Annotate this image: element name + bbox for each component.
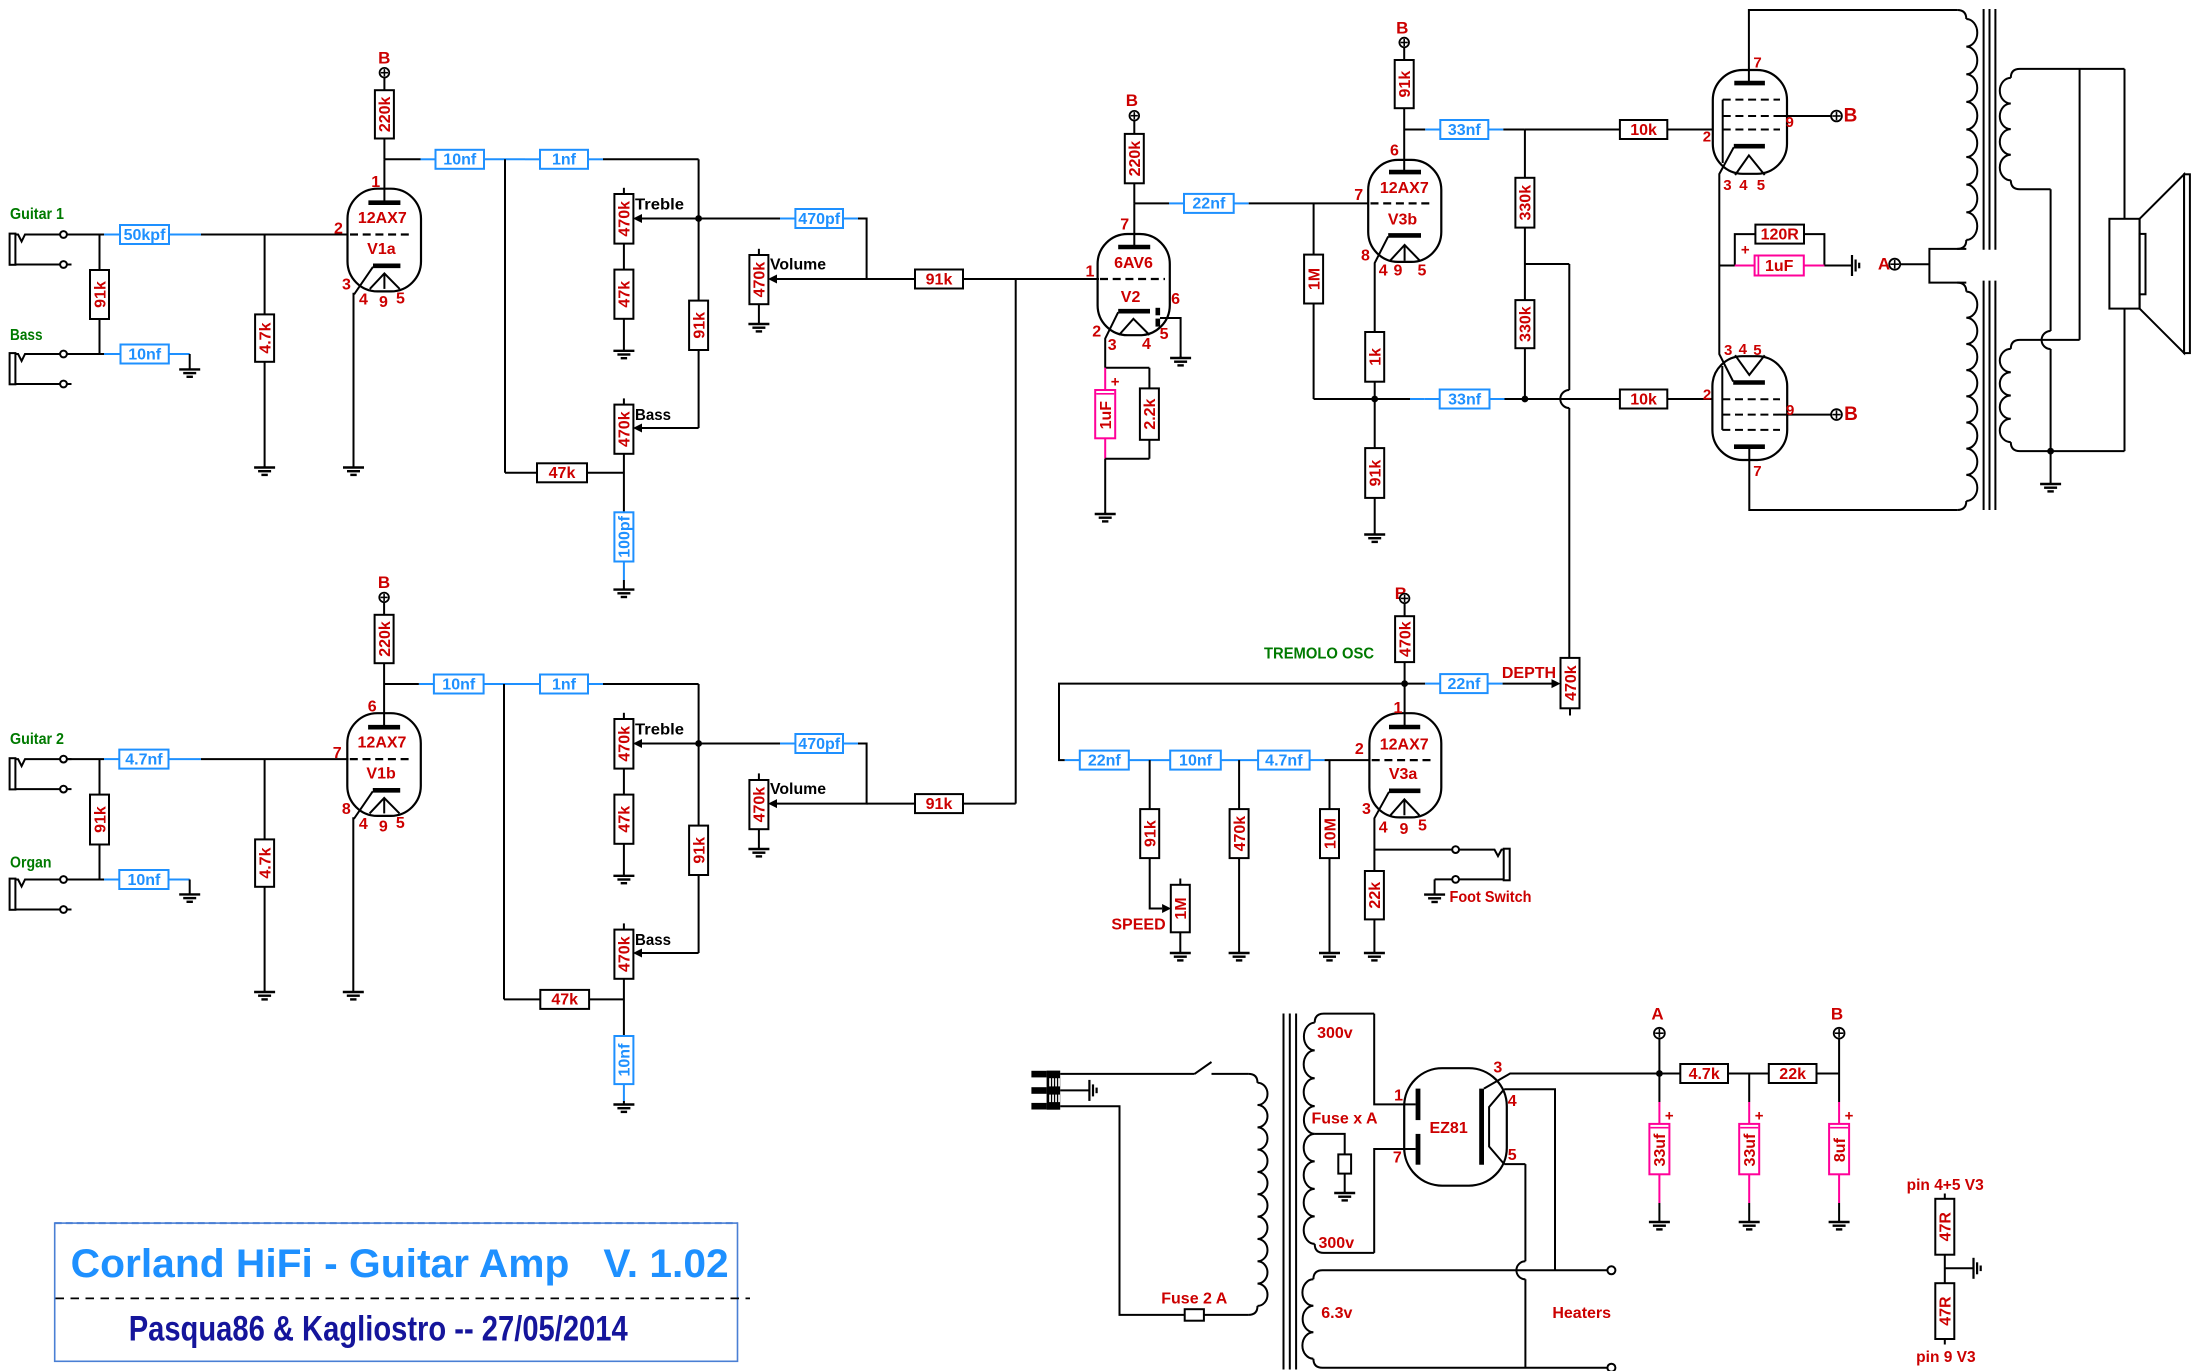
wire treble node down 91k ch1 xyxy=(698,219,700,301)
anode plate bar V2 xyxy=(1118,245,1150,250)
wire 91k ch2 to mix node xyxy=(963,279,1016,804)
power node A PSU xyxy=(1654,1028,1665,1039)
wire node1 down to 91k xyxy=(99,235,101,271)
svg-text:470k: 470k xyxy=(617,936,634,972)
wire 33nf lower to junction xyxy=(1490,398,1525,400)
wire 1M to cathode junction xyxy=(1314,304,1375,400)
svg-text:4: 4 xyxy=(1739,341,1748,358)
capacitor 100pf ch1 xyxy=(614,512,633,561)
rectifier EZ81 outline xyxy=(1404,1068,1507,1186)
wire mid caps down to 47k ch2 xyxy=(504,684,540,999)
text 6AV6 xyxy=(1114,255,1153,272)
wire treble to 47k ch1 xyxy=(623,244,625,270)
svg-text:3: 3 xyxy=(1723,177,1731,194)
svg-text:2.2k: 2.2k xyxy=(1142,398,1159,429)
svg-text:10nf: 10nf xyxy=(128,346,162,363)
pin 6 label V2 xyxy=(1171,291,1180,308)
capacitor 50kpf xyxy=(120,225,169,244)
resistor 91k input ch1 xyxy=(90,270,109,319)
text 12AX7 V1a xyxy=(358,210,407,227)
text Volume ch2 xyxy=(770,781,826,798)
svg-text:4: 4 xyxy=(1508,1093,1517,1110)
svg-text:91k: 91k xyxy=(691,837,708,864)
capacitor 4.7nf input ch2 xyxy=(119,750,168,769)
resistor 120R xyxy=(1755,225,1804,244)
svg-text:B: B xyxy=(1844,404,1858,425)
wire 10nf to ground ch2 xyxy=(623,1084,625,1104)
PT core xyxy=(1284,1014,1297,1370)
svg-text:7: 7 xyxy=(333,745,342,762)
node dot V3b cathode xyxy=(1371,396,1378,403)
ground V3b cathode xyxy=(1364,533,1385,542)
wire 1uF bottom V2 xyxy=(1105,438,1149,514)
svg-text:470pf: 470pf xyxy=(798,736,840,753)
svg-text:+: + xyxy=(1845,1107,1854,1124)
resistor 22k PSU xyxy=(1769,1064,1817,1083)
svg-text:7: 7 xyxy=(1120,216,1129,233)
svg-text:1M: 1M xyxy=(1306,268,1323,290)
heater terminal top xyxy=(1607,1266,1615,1274)
capacitor 33uf second xyxy=(1739,1107,1764,1174)
svg-text:22nf: 22nf xyxy=(1192,196,1226,213)
jack J1 Guitar 1 xyxy=(10,231,72,268)
title block box xyxy=(55,1223,738,1361)
svg-text:470k: 470k xyxy=(1397,621,1414,657)
wire organ jack to 10nf xyxy=(67,879,119,881)
svg-text:220k: 220k xyxy=(1127,141,1144,177)
cathode hook pin8 V3b xyxy=(1375,236,1389,332)
text Bass ch1 xyxy=(635,407,671,424)
grid1 dashed PWR1 xyxy=(1723,129,1780,131)
wire jack3 tip to node xyxy=(67,758,119,760)
wire mains live to switch xyxy=(1060,1073,1194,1075)
grid2 dashed PWR2 xyxy=(1722,414,1780,416)
power node B PSU xyxy=(1834,1028,1845,1039)
svg-text:100pf: 100pf xyxy=(617,515,634,557)
resistor 220k V1b xyxy=(375,615,394,663)
wire node2 down to 91k ch2 xyxy=(99,759,101,795)
pin 4 label V2 xyxy=(1142,336,1151,353)
svg-text:220k: 220k xyxy=(377,621,394,657)
wire 33uf1 top xyxy=(1658,1074,1660,1124)
mains plug xyxy=(1031,1071,1060,1110)
wire feedback loop V3a xyxy=(1059,684,1405,761)
svg-text:SPEED: SPEED xyxy=(1111,917,1165,934)
pin 9 label PWR1 xyxy=(1786,114,1794,131)
svg-text:B: B xyxy=(378,573,390,592)
svg-text:8: 8 xyxy=(1361,247,1370,264)
svg-text:5: 5 xyxy=(1418,262,1427,279)
ground 10nf ch2 xyxy=(613,1103,634,1112)
capacitor 1nf ch1 xyxy=(540,150,588,169)
svg-text:pin 9 V3: pin 9 V3 xyxy=(1916,1349,1976,1366)
wire osc junction to 22nf depth xyxy=(1405,683,1441,685)
svg-text:10M: 10M xyxy=(1322,818,1339,849)
pin 4 label V1a xyxy=(359,291,368,308)
wire 1uF to earth xyxy=(1804,265,1851,267)
wire 47k to bass bottom ch2 xyxy=(589,998,624,1000)
grid dashed V1a xyxy=(350,233,413,235)
svg-text:Guitar 2: Guitar 2 xyxy=(10,731,64,748)
svg-text:47k: 47k xyxy=(551,992,578,1009)
potentiometer DEPTH 470k xyxy=(1552,658,1580,716)
wire 4.7nf to grid V3a xyxy=(1310,759,1371,761)
triode V3b outline xyxy=(1368,160,1441,262)
resistor 4.7k ch2 xyxy=(255,839,274,886)
heater V1a xyxy=(370,273,400,289)
svg-text:10nf: 10nf xyxy=(442,676,476,693)
svg-text:2: 2 xyxy=(1703,386,1711,403)
pin 3 label V1a xyxy=(342,276,351,293)
wire cathode pin3 EZ81 xyxy=(1484,1074,1660,1089)
svg-text:4: 4 xyxy=(359,816,368,833)
node dot OT secondary ground xyxy=(2047,448,2054,455)
ground 4.7k ch2 xyxy=(254,991,275,1000)
wire treble node to 470pf ch1 xyxy=(699,218,796,220)
wire treble to 47k ch2 xyxy=(623,769,625,795)
grid dashed V1b xyxy=(350,758,413,760)
resistor 91k signal ch2 xyxy=(915,794,963,813)
wire 22k to B node xyxy=(1817,1073,1840,1075)
wire treble wiper ch2 xyxy=(642,743,699,745)
jack J5 Foot Switch xyxy=(1435,846,1510,883)
text Treble ch2 xyxy=(635,722,684,739)
resistor 47R second xyxy=(1935,1283,1954,1339)
resistor 2.2k V2 xyxy=(1140,388,1159,439)
heater V1b xyxy=(370,798,400,814)
svg-text:Corland HiFi - Guitar Amp V.: Corland HiFi - Guitar Amp V. 1.02 xyxy=(71,1242,729,1286)
switch mains xyxy=(1195,1062,1212,1074)
capacitor 1nf ch2 xyxy=(540,675,588,694)
potentiometer Treble ch2 xyxy=(614,713,642,769)
pin 9 label V1a xyxy=(379,294,388,311)
OT secondary winding upper xyxy=(2000,69,2125,189)
capacitor 8uf xyxy=(1829,1107,1854,1174)
anode plate bar V3a xyxy=(1389,725,1420,730)
jack J2 Bass xyxy=(10,351,72,388)
svg-text:V3b: V3b xyxy=(1388,211,1418,228)
svg-text:1nf: 1nf xyxy=(552,152,577,169)
svg-text:4.7k: 4.7k xyxy=(257,322,274,353)
grid bracket PWR2 xyxy=(1721,366,1723,430)
wire 47R1 top stub xyxy=(1944,1194,1946,1199)
pin 4 label V1b xyxy=(359,816,368,833)
jack J4 Organ xyxy=(10,876,72,913)
OT primary center tap bracket xyxy=(1929,249,1966,283)
text V1b xyxy=(366,765,396,782)
pin 6 label V1b xyxy=(368,698,377,715)
wire plug earth xyxy=(1060,1089,1089,1091)
wire 4.7k to 22k xyxy=(1728,1073,1769,1075)
wire plate pin7 V2 xyxy=(1133,203,1135,247)
pin 5 label V1b xyxy=(396,815,405,832)
wire V2 plate to 22nf xyxy=(1134,202,1184,204)
ground 470k osc xyxy=(1229,952,1250,961)
wire bass jack to 10nf xyxy=(67,353,121,355)
svg-text:DEPTH: DEPTH xyxy=(1502,665,1556,682)
svg-text:5: 5 xyxy=(396,815,405,832)
svg-text:91k: 91k xyxy=(691,312,708,339)
OT primary winding lower xyxy=(1957,283,1977,510)
svg-text:Foot Switch: Foot Switch xyxy=(1450,889,1532,906)
cathode bar V3b xyxy=(1388,233,1421,238)
ground diode V2 xyxy=(1170,356,1191,365)
wire mid caps down to 47k ch1 xyxy=(505,159,537,473)
pin 2 label V1a xyxy=(334,220,343,237)
svg-text:4: 4 xyxy=(1739,177,1748,194)
svg-text:47k: 47k xyxy=(549,465,576,482)
node dot treble ch1 xyxy=(695,215,702,222)
wire plate pin6 V1b xyxy=(383,684,385,727)
ground 22k V3a xyxy=(1364,952,1385,961)
PT primary winding xyxy=(1248,1074,1267,1315)
pin 7 label V1b xyxy=(333,745,342,762)
svg-text:330k: 330k xyxy=(1518,306,1535,342)
svg-text:2: 2 xyxy=(1355,741,1364,758)
wire cathode to 1uF V2 xyxy=(1104,368,1106,390)
svg-text:470k: 470k xyxy=(1563,665,1580,701)
text label DEPTH xyxy=(1502,665,1556,682)
pin 7 label EZ81 xyxy=(1393,1149,1402,1166)
svg-text:47R: 47R xyxy=(1938,1212,1955,1242)
potentiometer Bass ch1 xyxy=(614,398,642,453)
svg-text:Guitar 1: Guitar 1 xyxy=(10,206,64,223)
svg-text:8uf: 8uf xyxy=(1832,1137,1849,1162)
wire 330k to lower rail xyxy=(1524,348,1526,399)
wire 22k to ground xyxy=(1373,919,1375,953)
subtitle text xyxy=(129,1310,628,1349)
wire 33nf to 330k junction xyxy=(1488,129,1525,131)
svg-text:Bass: Bass xyxy=(10,327,43,344)
wire 330k mid link xyxy=(1525,228,1569,301)
wire HT fuse to ground xyxy=(1344,1174,1346,1193)
power node B V1b xyxy=(379,593,389,603)
svg-text:A: A xyxy=(1878,254,1890,273)
diode plates V2 xyxy=(1156,308,1161,327)
wire bass bottom ch2 xyxy=(623,979,625,1036)
resistor 47k horizontal ch2 xyxy=(540,990,589,1009)
svg-text:22k: 22k xyxy=(1367,882,1384,909)
title text xyxy=(71,1242,729,1286)
potentiometer Volume ch2 xyxy=(749,773,777,829)
svg-text:7: 7 xyxy=(1354,187,1363,204)
text EZ81 xyxy=(1429,1120,1467,1137)
pin 8 label V3b xyxy=(1361,247,1370,264)
svg-text:A: A xyxy=(1651,1005,1663,1024)
pin 3 label PWR1 xyxy=(1723,177,1731,194)
svg-text:B: B xyxy=(1396,19,1408,38)
wire 220k to plate junction ch2 xyxy=(383,663,385,684)
pin 2 label V2 xyxy=(1092,323,1101,340)
svg-text:12AX7: 12AX7 xyxy=(358,734,407,751)
svg-text:300v: 300v xyxy=(1319,1235,1355,1252)
svg-text:5: 5 xyxy=(1508,1147,1517,1164)
wire secondary link up xyxy=(2079,69,2081,340)
wire pin9 PWR2 to B xyxy=(1780,414,1832,416)
text 12AX7 V3a xyxy=(1380,736,1429,753)
PT HT winding upper xyxy=(1304,1014,1375,1134)
svg-text:3: 3 xyxy=(1362,801,1371,818)
text label A PSU xyxy=(1651,1005,1663,1024)
wire 10k to PWR1 grid xyxy=(1667,129,1713,131)
svg-text:8: 8 xyxy=(342,801,351,818)
wire 47R junction xyxy=(1945,1255,1973,1284)
text label pin 9 V3 xyxy=(1916,1349,1976,1366)
wire 330k chain top xyxy=(1524,130,1526,178)
svg-text:3: 3 xyxy=(1724,342,1732,359)
resistor 91k osc xyxy=(1140,809,1159,858)
capacitor 33nf upper xyxy=(1440,120,1488,139)
node dot 330k lower rail xyxy=(1522,396,1529,403)
grid3 dashed PWR2 xyxy=(1722,429,1780,431)
power node B V1a xyxy=(380,68,390,78)
resistor 4.7k PSU xyxy=(1680,1064,1728,1083)
wire plate junction to 10nf ch2 xyxy=(384,683,434,685)
svg-text:33uf: 33uf xyxy=(1652,1133,1669,1167)
triode V2 outline xyxy=(1098,234,1170,335)
pin 4 label PWR2 xyxy=(1739,341,1748,358)
text label Organ xyxy=(10,855,52,872)
wire 91k to bass node xyxy=(99,319,101,354)
pin 7 label V2 xyxy=(1120,216,1129,233)
wire junction to 10k upper xyxy=(1525,129,1620,131)
earth ground mains xyxy=(1089,1080,1096,1101)
svg-text:Volume: Volume xyxy=(770,781,826,798)
wire 470k osc to ground xyxy=(1238,858,1240,953)
svg-text:1: 1 xyxy=(371,174,380,191)
svg-text:1: 1 xyxy=(1085,263,1094,280)
anode plate bar PWR2 xyxy=(1734,444,1765,449)
svg-text:9: 9 xyxy=(1786,402,1794,419)
svg-text:1: 1 xyxy=(1394,1088,1403,1105)
cathode bar V3a xyxy=(1389,788,1420,793)
triode V3a outline xyxy=(1369,713,1441,817)
text V2 xyxy=(1121,289,1141,306)
cathode hook pin2 V2 xyxy=(1105,312,1118,368)
ground HT center tap xyxy=(1334,1192,1355,1201)
text label 300v bottom xyxy=(1319,1235,1355,1252)
resistor 1M V3b grid xyxy=(1304,255,1323,304)
svg-text:4.7k: 4.7k xyxy=(1689,1066,1720,1083)
resistor 91k tone ch2 xyxy=(689,826,708,875)
pin 7 label V3b xyxy=(1354,187,1363,204)
potentiometer Bass ch2 xyxy=(614,923,642,978)
resistor 91k V3b plate xyxy=(1395,60,1414,108)
svg-text:B: B xyxy=(1831,1005,1843,1024)
pin 4 label V3a xyxy=(1379,819,1388,836)
text Treble ch1 xyxy=(635,197,684,214)
svg-text:5: 5 xyxy=(1753,342,1761,359)
capacitor 4.7nf osc xyxy=(1258,751,1310,770)
wire B to 220k V2 xyxy=(1133,121,1135,134)
capacitor 33nf lower xyxy=(1440,390,1490,409)
svg-text:B: B xyxy=(378,49,390,68)
grid2 dashed PWR1 xyxy=(1723,115,1780,117)
pin 9 label V3b xyxy=(1393,262,1402,279)
anode plate bar PWR1 xyxy=(1734,81,1765,86)
svg-text:6: 6 xyxy=(1171,291,1180,308)
wire 120R right lead xyxy=(1804,234,1824,265)
svg-text:10k: 10k xyxy=(1630,391,1657,408)
text label B node V3a xyxy=(1395,584,1407,603)
svg-text:Organ: Organ xyxy=(10,855,52,872)
svg-text:91k: 91k xyxy=(926,271,953,288)
wire 50kpf to grid V1a xyxy=(169,234,349,236)
ground volume ch2 xyxy=(748,829,769,856)
svg-text:Heaters: Heaters xyxy=(1552,1305,1611,1322)
resistor 47k horizontal ch1 xyxy=(537,463,587,482)
svg-text:Bass: Bass xyxy=(635,932,671,949)
text label A node OT xyxy=(1878,254,1890,273)
svg-text:4.7k: 4.7k xyxy=(257,847,274,878)
potentiometer Volume ch1 xyxy=(749,249,777,304)
svg-text:5: 5 xyxy=(1418,818,1427,835)
anode plate 7 EZ81 xyxy=(1416,1134,1421,1165)
svg-text:Treble: Treble xyxy=(635,197,684,214)
ground cathode V2 xyxy=(1095,513,1116,522)
OT primary winding upper xyxy=(1957,10,1977,249)
wire pin5 to heater rail xyxy=(1504,1164,1525,1368)
svg-text:300v: 300v xyxy=(1317,1025,1353,1042)
wire plate PWR1 to OT xyxy=(1749,10,1957,83)
text label 300v top xyxy=(1317,1025,1353,1042)
svg-text:3: 3 xyxy=(342,276,351,293)
svg-text:91k: 91k xyxy=(1142,820,1159,847)
svg-text:50kpf: 50kpf xyxy=(124,227,166,244)
wire 4.7k ch2 to ground xyxy=(264,887,266,992)
wire 4.7k to ground xyxy=(264,362,266,468)
text label B node V3b xyxy=(1396,19,1408,38)
svg-text:4: 4 xyxy=(1379,819,1388,836)
svg-text:B: B xyxy=(1126,91,1138,110)
svg-text:+: + xyxy=(1741,242,1750,259)
text label B node V2 xyxy=(1126,91,1138,110)
cathode bar PWR1 xyxy=(1734,144,1765,149)
text label B PWR1 xyxy=(1844,105,1858,126)
earth ground 47R xyxy=(1974,1258,1981,1279)
resistor 10k upper xyxy=(1620,120,1667,139)
triode V1b outline xyxy=(347,713,421,816)
wire HT top to EZ81 pin1 xyxy=(1374,1014,1415,1105)
wire 33uf2 bottom xyxy=(1748,1174,1750,1222)
resistor 91k tone ch1 xyxy=(689,301,708,350)
svg-text:47k: 47k xyxy=(617,806,634,833)
anode plate 1 EZ81 xyxy=(1416,1089,1421,1121)
wire 22nf to V3b grid xyxy=(1234,202,1369,204)
anode plate bar V1b xyxy=(368,725,400,730)
text label B PSU xyxy=(1831,1005,1843,1024)
pin 1 label V2 xyxy=(1085,263,1094,280)
capacitor 22nf V2 coupling xyxy=(1184,194,1234,213)
capacitor 10nf input ch2 xyxy=(119,870,168,889)
wire mains neutral xyxy=(1060,1106,1185,1315)
heater PWR2 xyxy=(1735,355,1765,375)
wire 22nf to 10nf osc xyxy=(1129,759,1170,761)
wire osc node2 down xyxy=(1238,760,1240,809)
wire bass bottom ch1 xyxy=(623,454,625,513)
heater V3a xyxy=(1390,799,1419,815)
svg-text:5: 5 xyxy=(1160,326,1169,343)
pin 3 label V2 xyxy=(1108,337,1117,354)
resistor 330k lower xyxy=(1515,300,1534,348)
pentode PWR1 outline xyxy=(1713,70,1787,174)
wire volume to 91k ch1 xyxy=(867,278,915,280)
svg-text:9: 9 xyxy=(379,294,388,311)
svg-text:Treble: Treble xyxy=(635,722,684,739)
title block divider xyxy=(56,1297,751,1299)
svg-text:33nf: 33nf xyxy=(1448,391,1482,408)
pin 2 label PWR2 xyxy=(1703,386,1711,403)
